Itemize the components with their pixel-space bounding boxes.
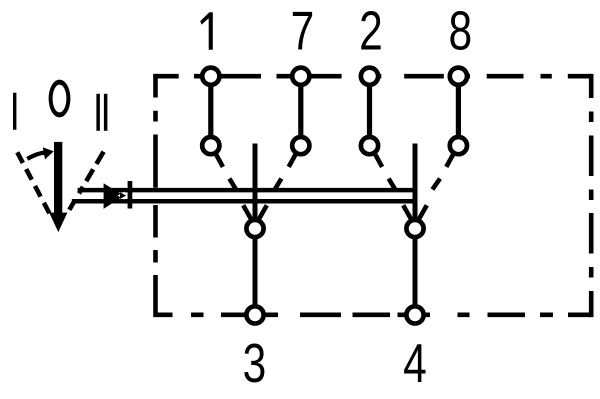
drive arrow chevron tip	[120, 192, 126, 199]
detent tick on bar	[128, 181, 133, 209]
wire: contact 8 fixed arm (vertical)	[456, 76, 461, 142]
enclosure dash-dot border: left edge	[153, 74, 158, 317]
mover 4 fork (V below bar)	[403, 205, 427, 218]
wire: contact 2 fixed arm (vertical)	[367, 76, 372, 142]
enclosure dash-dot border: top edge (wires to terminals 1,7,2,8 included)	[156, 74, 592, 79]
pin label 1	[200, 12, 213, 50]
terminal 4	[406, 306, 423, 323]
enclosure dash-dot border: bottom edge (wires to terminals 3,4 included)	[156, 312, 592, 317]
actuator drive arrow (filled triangle on bar)	[104, 183, 124, 209]
contact 2 lower contact circle	[361, 137, 378, 154]
contact 7 lower contact circle	[292, 137, 309, 154]
wire: contact 1 fixed arm (vertical)	[208, 76, 213, 142]
mover 4 push rod (vertical through bar)	[413, 144, 418, 220]
mover 3 push rod (vertical through bar)	[253, 144, 258, 220]
label 0 (position 0)	[49, 80, 71, 118]
terminal 1	[202, 68, 219, 85]
actuator bar (double line)	[72, 190, 418, 201]
svg-text:4: 4	[403, 334, 427, 394]
contact 7 dashed engagement path (stub + dash toward bar)	[275, 155, 296, 190]
white notch in drive arrow tip	[118, 192, 125, 200]
contact 8 dashed engagement path (stub + dash toward bar)	[432, 155, 453, 190]
contact 1 dashed engagement path (stub + dash toward bar)	[216, 155, 236, 190]
wire: mover 4 to terminal 4	[413, 238, 418, 306]
label I (position I)	[13, 93, 16, 130]
terminal 2	[361, 68, 378, 85]
lever position II dashed stroke	[69, 152, 103, 210]
svg-text:2: 2	[359, 2, 383, 62]
svg-text:7: 7	[291, 2, 315, 62]
wire: contact 7 fixed arm (vertical)	[298, 76, 303, 142]
mover 4 bridge circle	[406, 220, 423, 237]
lever (position 0, thick arrow down)	[54, 142, 62, 215]
terminal 8	[450, 68, 467, 85]
terminal 3	[246, 306, 263, 323]
wire: mover 3 to terminal 3	[253, 238, 258, 306]
label II (position II)	[96, 94, 100, 131]
contact 1 lower contact circle	[202, 137, 219, 154]
svg-text:3: 3	[243, 334, 267, 394]
lever position I dashed stroke	[17, 152, 49, 213]
mover 3 bridge circle	[246, 220, 263, 237]
contact 2 dashed engagement path (stub + dash toward bar)	[375, 155, 395, 190]
mover 3 fork (V below bar)	[243, 205, 267, 218]
svg-text:8: 8	[448, 2, 472, 62]
enclosure dash-dot border: right edge	[589, 74, 594, 317]
terminal 7	[292, 68, 309, 85]
rotation direction curved arrow	[27, 153, 44, 159]
contact 8 lower contact circle	[450, 137, 467, 154]
